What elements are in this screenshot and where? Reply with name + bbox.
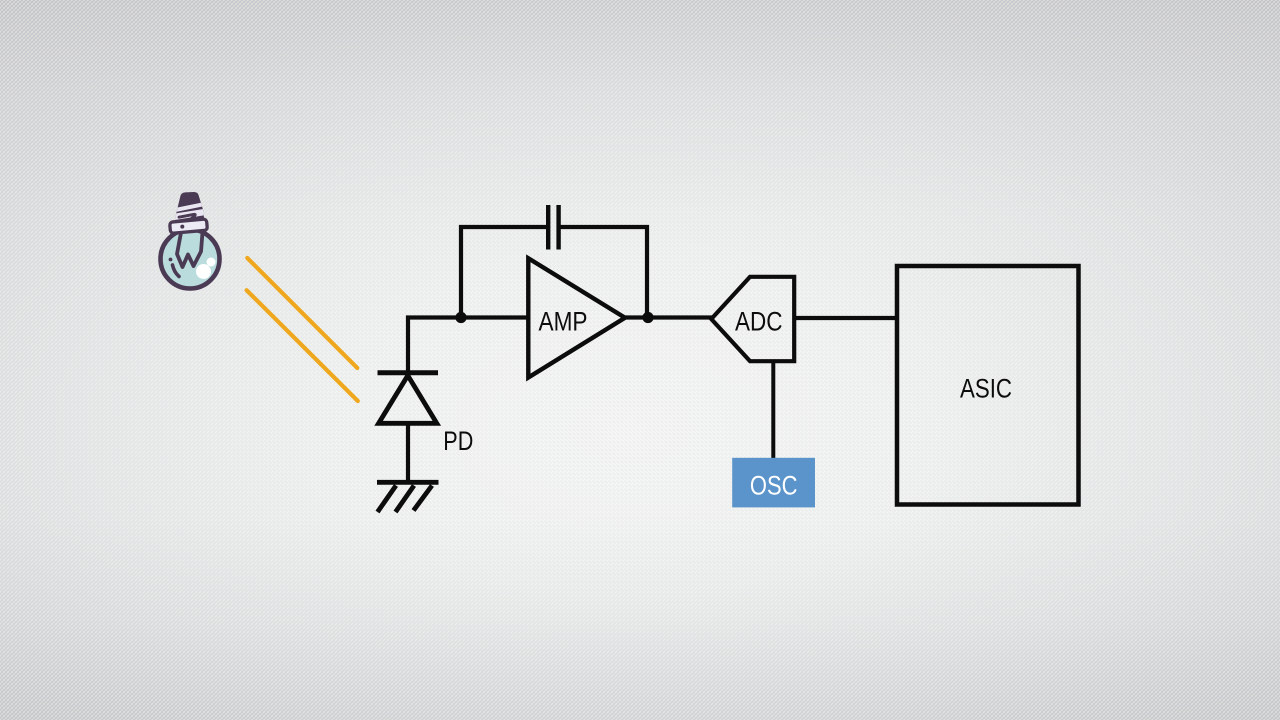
svg-text:PD: PD bbox=[443, 426, 473, 456]
light ray 1 bbox=[247, 258, 357, 368]
anode triangle bbox=[379, 376, 437, 424]
cap stripe 2 (light band) bbox=[174, 212, 204, 217]
svg-text:OSC: OSC bbox=[750, 471, 798, 501]
collar bbox=[170, 219, 208, 233]
wire ADC to ASIC bbox=[794, 316, 897, 320]
wire PD-top to input node bbox=[408, 318, 530, 373]
node input junction bbox=[455, 312, 466, 323]
ADC converter bbox=[711, 277, 794, 361]
photodiode PD bbox=[378, 373, 439, 424]
wire feedback loop right bbox=[561, 227, 648, 318]
wire AMP output to ADC bbox=[624, 315, 712, 319]
svg-text:ADC: ADC bbox=[735, 307, 783, 337]
highlight small bbox=[207, 258, 216, 267]
wire feedback loop left bbox=[461, 227, 546, 318]
ASIC block bbox=[897, 266, 1079, 505]
wire PD to ground bbox=[406, 423, 410, 481]
wire ADC to OSC bbox=[771, 361, 775, 458]
cap stripe 1 bbox=[174, 205, 202, 211]
ground bbox=[377, 482, 439, 512]
node output junction bbox=[642, 312, 653, 323]
OSC block bbox=[732, 458, 815, 508]
op-amp AMP bbox=[528, 258, 625, 377]
cap squiggle bbox=[179, 214, 195, 219]
svg-text:ASIC: ASIC bbox=[960, 374, 1012, 404]
sparkle line bbox=[173, 265, 180, 277]
bulb glass bbox=[161, 230, 220, 289]
filament bbox=[177, 233, 203, 268]
light ray 2 bbox=[247, 290, 358, 401]
collar dot bbox=[180, 225, 184, 229]
light bulb icon bbox=[161, 192, 220, 289]
svg-text:AMP: AMP bbox=[539, 307, 588, 337]
cathode bar bbox=[378, 370, 439, 375]
highlight big bbox=[196, 264, 211, 279]
sparkle dot bbox=[169, 258, 173, 262]
capacitor C feedback bbox=[548, 205, 558, 250]
